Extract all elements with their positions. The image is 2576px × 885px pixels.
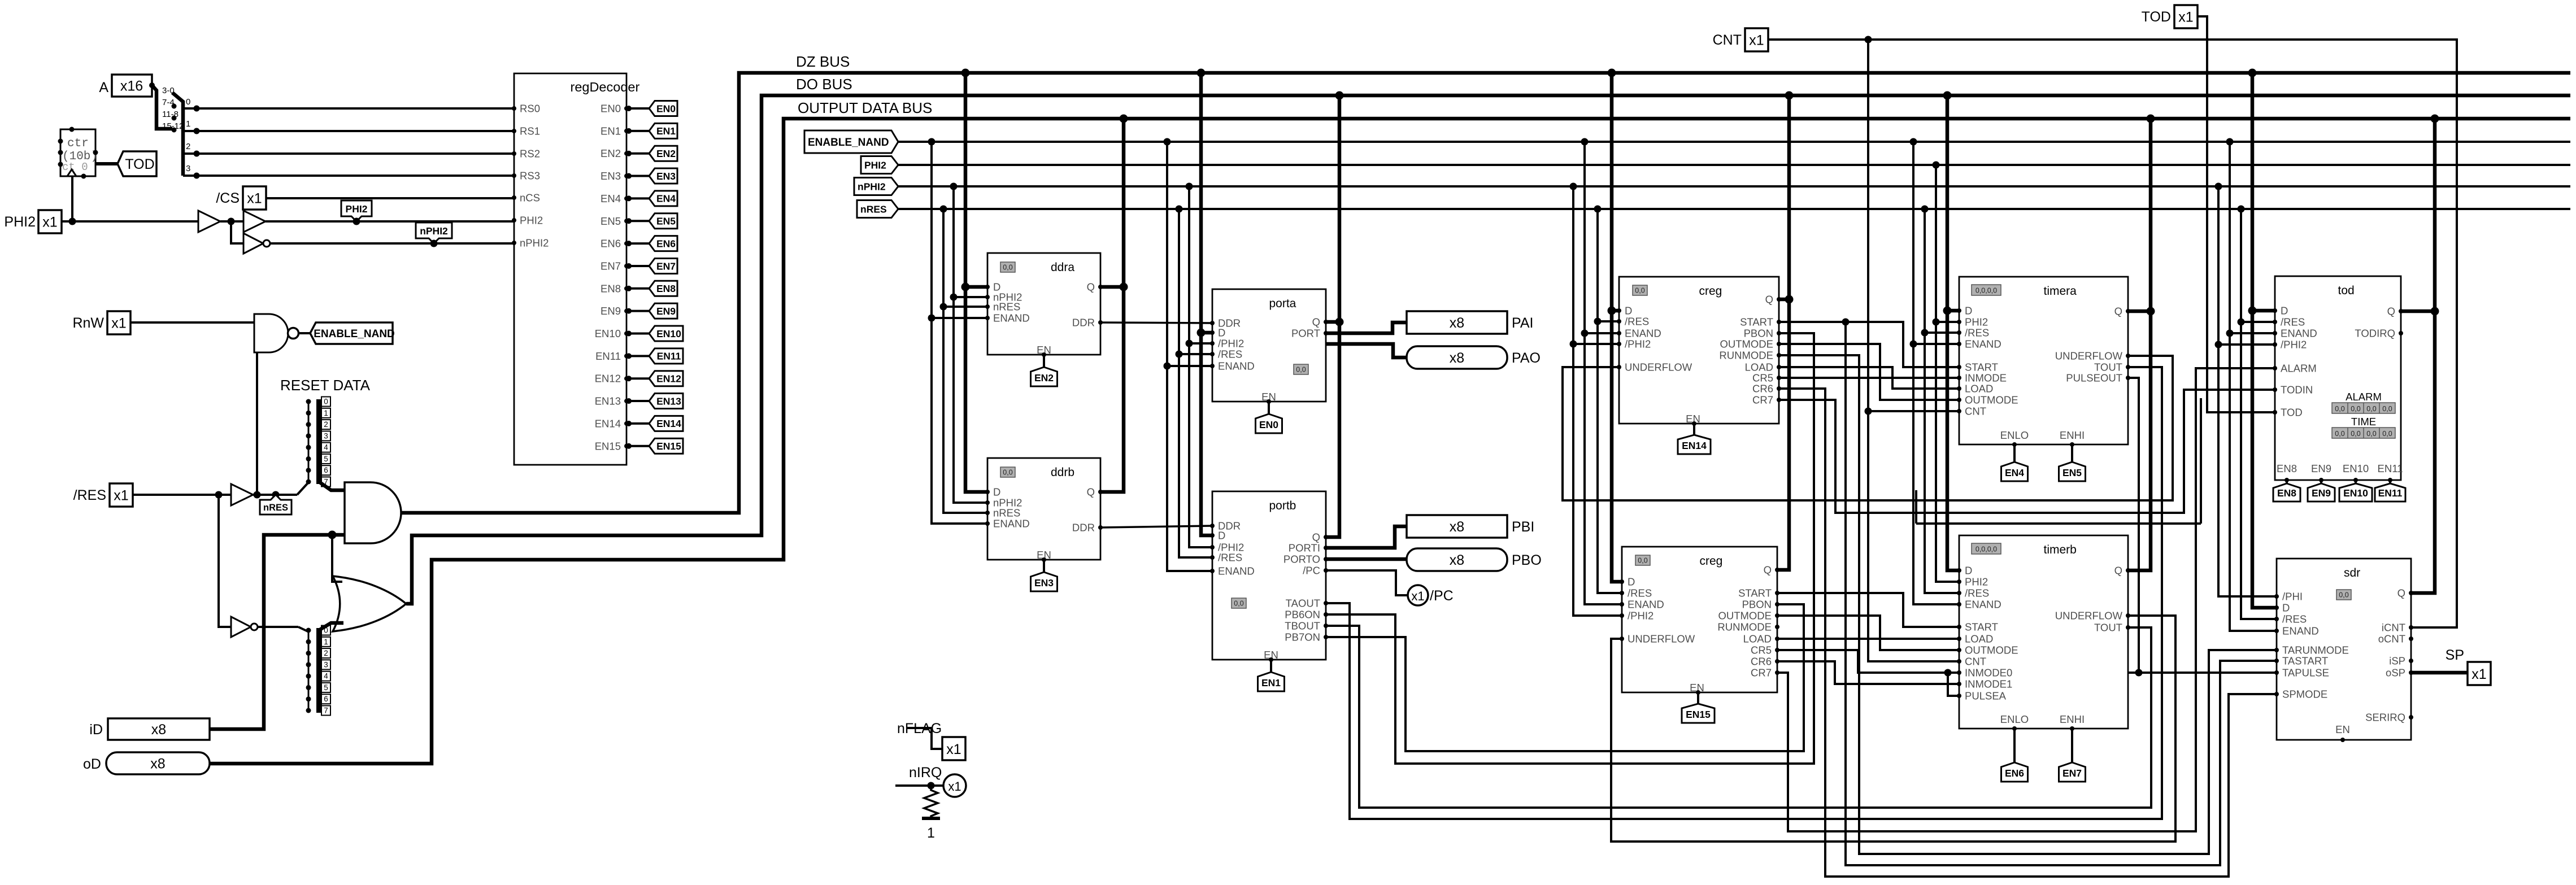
timera xyxy=(1959,277,2128,444)
svg-text:EN4: EN4 xyxy=(656,193,676,204)
svg-text:EN10: EN10 xyxy=(595,328,621,339)
wire ddra/ddrb Q tie to OUTPUT DATA BUS xyxy=(1120,115,1128,123)
junction iD to OR xyxy=(328,531,337,539)
svg-text:CR6: CR6 xyxy=(1751,656,1772,668)
wire timera.PULSEOUT to sdr.TAPULSE xyxy=(2128,378,2139,673)
svg-text:x8: x8 xyxy=(1450,552,1464,568)
node EN14 flag xyxy=(1692,421,1696,426)
junction nIRQ pullup xyxy=(928,782,935,790)
svg-text:LOAD: LOAD xyxy=(1743,633,1772,645)
svg-text:EN8: EN8 xyxy=(601,282,621,294)
svg-text:PHI2: PHI2 xyxy=(864,159,886,171)
svg-text:PBO: PBO xyxy=(1512,552,1542,568)
node EN3 flag xyxy=(649,168,677,184)
svg-text:oSP: oSP xyxy=(2386,667,2405,679)
wire iD bus xyxy=(210,535,345,729)
wire cregA.PBON to portb.PB6ON xyxy=(1326,333,1814,764)
or gate U8 xyxy=(333,576,406,631)
svg-text:Q: Q xyxy=(1764,564,1772,576)
node EN6 flag xyxy=(2012,726,2017,731)
wire cregA.START to timera.START xyxy=(1779,322,1959,367)
svg-text:/RES: /RES xyxy=(2281,316,2305,328)
svg-text:EN: EN xyxy=(2335,723,2350,735)
svg-text:D: D xyxy=(1628,576,1635,588)
svg-text:PBON: PBON xyxy=(1742,599,1772,611)
svg-text:EN1: EN1 xyxy=(656,125,676,137)
svg-text:EN6: EN6 xyxy=(656,238,676,249)
wire EN7 stub xyxy=(626,265,649,267)
svg-text:ENABLE_NAND: ENABLE_NAND xyxy=(314,328,395,340)
wire EN3 stub xyxy=(626,175,649,177)
inverter U6 /RES xyxy=(231,617,251,637)
wire EN1 stub xyxy=(626,130,649,132)
node EN1 flag xyxy=(1269,657,1273,662)
node EN2 flag xyxy=(1042,352,1046,357)
wire porta/portb Q tie to DO BUS xyxy=(1335,91,1344,100)
svg-text:/RES: /RES xyxy=(2282,613,2307,625)
svg-text:/RES: /RES xyxy=(1628,587,1652,599)
wire oSP to SP xyxy=(2411,671,2468,675)
svg-text:sdr: sdr xyxy=(2344,566,2360,579)
wire EN0 stub xyxy=(626,107,649,110)
svg-text:Q: Q xyxy=(2397,587,2405,599)
svg-text:Q: Q xyxy=(1087,281,1095,293)
svg-text:TODIRQ: TODIRQ xyxy=(2355,328,2395,339)
junction PHI2/ctr xyxy=(69,218,76,225)
resistor R1 pullup xyxy=(924,786,938,818)
svg-text:nPHI2: nPHI2 xyxy=(520,237,549,249)
svg-text:RESET DATA: RESET DATA xyxy=(280,377,371,394)
wire ENAND drop porta/portb xyxy=(1164,138,1171,146)
svg-text:OUTMODE: OUTMODE xyxy=(1718,610,1772,622)
node PHI2 flag right xyxy=(861,156,898,174)
wire nRES line xyxy=(898,208,2570,210)
svg-text:creg: creg xyxy=(1700,555,1723,568)
port CNT xyxy=(1745,28,1768,51)
svg-text:UNDERFLOW: UNDERFLOW xyxy=(1628,633,1695,645)
svg-text:0,0: 0,0 xyxy=(2335,430,2344,438)
svg-text:0,0,0,0: 0,0,0,0 xyxy=(1975,546,1997,553)
wire oD bus to OUTPUT DATA BUS xyxy=(210,119,2570,764)
svg-text:porta: porta xyxy=(1269,297,1296,310)
svg-text:UNDERFLOW: UNDERFLOW xyxy=(1625,361,1692,373)
svg-text:EN5: EN5 xyxy=(601,215,621,227)
svg-text:EN12: EN12 xyxy=(656,373,681,385)
wire EN5 stub xyxy=(626,220,649,222)
svg-text:x1: x1 xyxy=(1411,589,1424,603)
svg-text:1: 1 xyxy=(324,409,328,417)
svg-text:ENAND: ENAND xyxy=(1965,338,2001,350)
svg-text:ENLO: ENLO xyxy=(2000,713,2029,725)
svg-text:PORTO: PORTO xyxy=(1283,553,1320,565)
svg-text:PHI2: PHI2 xyxy=(1965,576,1988,588)
counter ctr (10b) xyxy=(60,129,95,176)
node EN4 flag xyxy=(649,191,677,206)
svg-text:OUTMODE: OUTMODE xyxy=(1965,644,2018,656)
svg-text:2: 2 xyxy=(186,142,190,151)
svg-text:UNDERFLOW: UNDERFLOW xyxy=(2055,350,2123,362)
wire splitter1 to AND xyxy=(320,482,345,490)
junction /RES fanout xyxy=(215,491,223,499)
svg-text:x8: x8 xyxy=(1450,350,1464,366)
svg-text:ENHI: ENHI xyxy=(2060,713,2085,725)
port SP xyxy=(2468,662,2491,685)
svg-text:nRES: nRES xyxy=(860,203,887,215)
svg-text:0: 0 xyxy=(324,398,328,406)
wire iD branch to OR input xyxy=(332,535,342,582)
ground / power 1 xyxy=(922,817,940,820)
svg-text:1: 1 xyxy=(927,825,935,841)
junction START to TASTART xyxy=(1842,319,1850,326)
wire nPHI2 branch down xyxy=(231,221,243,243)
svg-text:0,0: 0,0 xyxy=(1638,557,1647,565)
svg-text:/RES: /RES xyxy=(1218,348,1242,360)
svg-text:CR5: CR5 xyxy=(1752,372,1773,384)
svg-text:LOAD: LOAD xyxy=(1965,633,1993,645)
wire EN9 stub xyxy=(626,310,649,312)
wire cregA.CR6 to sdr.SPMODE xyxy=(1779,389,2277,877)
svg-text:START: START xyxy=(1965,361,1998,373)
svg-text:CR5: CR5 xyxy=(1751,644,1772,656)
svg-text:D: D xyxy=(1218,530,1225,542)
svg-text:7: 7 xyxy=(324,707,328,715)
svg-text:0,0: 0,0 xyxy=(2382,405,2392,413)
wire ctr clock feed xyxy=(71,176,73,221)
wire PHI2 drop timera/timerb xyxy=(1933,162,1940,169)
svg-text:timera: timera xyxy=(2044,285,2077,298)
svg-text:START: START xyxy=(1740,316,1773,328)
node EN11 flag xyxy=(2388,478,2392,482)
svg-text:CR7: CR7 xyxy=(1751,667,1772,679)
svg-text:/RES: /RES xyxy=(73,487,106,503)
svg-text:/PC: /PC xyxy=(1303,565,1320,577)
svg-text:ENAND: ENAND xyxy=(1965,599,2001,611)
svg-text:3: 3 xyxy=(324,660,328,669)
inverter U3 nPHI2 xyxy=(243,233,263,254)
node PHI2 label flag xyxy=(341,200,372,221)
svg-text:TARUNMODE: TARUNMODE xyxy=(2282,644,2349,656)
wire TAPULSE line xyxy=(2128,672,2277,674)
svg-text:nIRQ: nIRQ xyxy=(909,765,942,781)
node EN1 flag xyxy=(649,123,677,138)
svg-text:0,0: 0,0 xyxy=(2366,430,2376,438)
wire cregA.RUNMODE to sdr.TARUNMODE xyxy=(1779,355,2277,854)
wire DZ drop creg D xyxy=(1608,69,1616,77)
svg-text:x1: x1 xyxy=(114,488,128,504)
svg-text:0,0: 0,0 xyxy=(2335,405,2344,413)
node EN10 flag xyxy=(2353,478,2358,482)
svg-text:RnW: RnW xyxy=(72,315,104,331)
creg B control register xyxy=(1622,547,1777,692)
svg-text:EN9: EN9 xyxy=(2312,487,2331,499)
svg-text:x8: x8 xyxy=(150,756,165,772)
svg-text:D: D xyxy=(1965,565,1972,577)
svg-text:iD: iD xyxy=(89,722,103,738)
wire TOD to tod.TOD xyxy=(2198,16,2275,412)
wire nRES drop porta/portb xyxy=(1176,206,1183,213)
wire buffer1 out xyxy=(220,220,243,223)
node EN5 flag xyxy=(2070,442,2074,447)
svg-text:START: START xyxy=(1738,587,1772,599)
wire CNT line xyxy=(1768,40,2457,627)
svg-text:PBI: PBI xyxy=(1512,519,1534,535)
svg-text:nRES: nRES xyxy=(263,503,288,513)
node EN2 flag xyxy=(649,146,677,161)
node EN8 flag xyxy=(649,281,677,296)
wire cregB.CR5 to timerb.INMODE0 xyxy=(1777,650,1959,673)
wire DZ drop tod/sdr D xyxy=(2248,69,2257,77)
svg-text:DZ BUS: DZ BUS xyxy=(796,53,850,70)
svg-text:EN1: EN1 xyxy=(601,125,621,137)
wire nRES drop ddra/ddrb xyxy=(940,206,947,213)
wire cregA.OUTMODE to timera.OUTMODE xyxy=(1779,344,1959,400)
node EN4 flag xyxy=(2012,442,2017,447)
svg-text:/PHI2: /PHI2 xyxy=(1625,338,1651,350)
svg-text:PORTI: PORTI xyxy=(1289,542,1320,554)
svg-text:3: 3 xyxy=(186,164,190,173)
svg-text:2: 2 xyxy=(324,649,328,657)
sdr serial data register xyxy=(2277,559,2411,740)
svg-text:D: D xyxy=(1218,327,1225,339)
svg-text:EN0: EN0 xyxy=(601,103,621,115)
junction nRES to NAND xyxy=(254,491,261,499)
svg-text:D: D xyxy=(2281,305,2288,317)
node ENABLE_NAND flag right xyxy=(804,130,898,153)
svg-text:0,0: 0,0 xyxy=(2382,430,2392,438)
wire A low nibble trunk xyxy=(172,93,183,176)
svg-text:ENAND: ENAND xyxy=(1218,565,1255,577)
svg-text:TOD: TOD xyxy=(125,156,154,172)
junction nRES flag xyxy=(272,491,280,499)
svg-text:PHI2: PHI2 xyxy=(4,214,36,230)
wire NAND out xyxy=(299,332,310,334)
svg-text:PULSEOUT: PULSEOUT xyxy=(2066,372,2122,384)
node EN7 flag xyxy=(649,258,677,273)
svg-text:nPHI2: nPHI2 xyxy=(858,181,886,192)
wire NAND input2 from nRES xyxy=(256,352,258,495)
node EN13 flag xyxy=(649,394,683,409)
svg-text:ctr: ctr xyxy=(67,137,89,150)
node EN15 flag xyxy=(649,438,683,454)
svg-text:EN8: EN8 xyxy=(656,283,676,294)
wire timera.TOUT to portb.TAOUT xyxy=(1326,367,2162,819)
svg-text:A: A xyxy=(99,80,108,95)
svg-text:SERIRQ: SERIRQ xyxy=(2365,712,2405,723)
svg-text:EN9: EN9 xyxy=(2311,463,2331,474)
wire ENAND drop creg xyxy=(1581,138,1589,146)
svg-text:EN4: EN4 xyxy=(601,193,621,204)
wire nPHI2 to regDecoder xyxy=(270,242,514,245)
svg-text:5: 5 xyxy=(324,683,328,692)
svg-text:TOD: TOD xyxy=(2281,407,2303,418)
node ENABLE_NAND flag xyxy=(310,322,393,344)
svg-text:DDR: DDR xyxy=(1072,522,1095,534)
svg-text:EN2: EN2 xyxy=(1034,372,1054,383)
svg-text:Q: Q xyxy=(1087,486,1095,498)
svg-text:EN9: EN9 xyxy=(656,306,676,317)
wire nCS xyxy=(266,197,514,199)
wire aux link xyxy=(1916,398,2201,524)
wire porta to PAO xyxy=(1326,344,1407,358)
svg-text:EN11: EN11 xyxy=(2378,487,2403,499)
svg-text:0: 0 xyxy=(186,97,190,107)
svg-text:EN11: EN11 xyxy=(595,350,621,362)
svg-text:ENAND: ENAND xyxy=(1218,360,1255,372)
splitter S2 reset-data xyxy=(316,628,322,713)
svg-text:creg: creg xyxy=(1699,285,1722,298)
node EN9 flag xyxy=(649,303,677,319)
svg-text:EN15: EN15 xyxy=(1686,709,1711,720)
wire nPHI2 drop tod/sdr xyxy=(2215,183,2222,190)
node nRES label flag xyxy=(260,495,291,515)
wire EN12 stub xyxy=(626,377,649,380)
wire DO drop timera/timerb D xyxy=(1943,91,1952,100)
svg-text:RS1: RS1 xyxy=(520,125,540,137)
svg-text:x1: x1 xyxy=(2471,666,2486,682)
svg-text:x1: x1 xyxy=(111,316,126,332)
svg-text:TIME: TIME xyxy=(2351,416,2376,428)
svg-text:0,0: 0,0 xyxy=(1003,264,1012,272)
svg-text:EN7: EN7 xyxy=(656,260,676,272)
svg-text:0,0: 0,0 xyxy=(1003,469,1012,477)
svg-text:TODIN: TODIN xyxy=(2281,384,2313,396)
svg-text:PORT: PORT xyxy=(1291,328,1320,339)
svg-text:ENLO: ENLO xyxy=(2000,429,2029,441)
svg-text:ddrb: ddrb xyxy=(1051,466,1074,479)
svg-text:0,0: 0,0 xyxy=(1635,287,1644,295)
svg-text:PB6ON: PB6ON xyxy=(1285,609,1320,621)
svg-text:CNT: CNT xyxy=(1713,32,1742,48)
svg-text:6: 6 xyxy=(324,466,328,474)
wire ENAND drop tod/sdr xyxy=(2226,138,2234,146)
svg-text:RS0: RS0 xyxy=(520,103,540,115)
svg-text:TOD: TOD xyxy=(2142,9,2171,25)
wire nRES drop timera/timerb xyxy=(1921,206,1929,213)
timerb xyxy=(1959,535,2128,729)
svg-text:EN14: EN14 xyxy=(656,418,681,429)
svg-text:4: 4 xyxy=(324,443,328,452)
port iD xyxy=(108,718,210,740)
svg-text:ENAND: ENAND xyxy=(1628,599,1664,611)
port oD xyxy=(106,752,210,774)
wire timera/timerb Q tie to OUTPUT DATA BUS xyxy=(2147,115,2155,123)
svg-text:RUNMODE: RUNMODE xyxy=(1719,350,1773,361)
svg-text:EN15: EN15 xyxy=(595,440,621,452)
wire porta.PORT to PAI xyxy=(1326,322,1407,333)
ddrb register xyxy=(987,458,1100,560)
port TOD xyxy=(2174,5,2198,28)
svg-text:EN3: EN3 xyxy=(601,170,621,182)
svg-text:1: 1 xyxy=(324,638,328,646)
port PAI xyxy=(1407,311,1507,334)
svg-text:oD: oD xyxy=(83,756,101,772)
svg-text:0,0: 0,0 xyxy=(1234,600,1243,608)
wire cregA.CR7 to tod.TODIN xyxy=(1779,390,2275,513)
svg-text:D: D xyxy=(993,486,1000,498)
wire portb.PORTI to PBI xyxy=(1326,526,1407,548)
svg-text:portb: portb xyxy=(1269,499,1296,512)
wire EN11 stub xyxy=(626,355,649,357)
svg-text:DO BUS: DO BUS xyxy=(796,76,852,93)
node nPHI2 label flag xyxy=(416,223,452,243)
wire cregA.START branch to sdr.TASTART xyxy=(1846,322,2277,865)
svg-text:2: 2 xyxy=(324,420,328,429)
svg-text:Q: Q xyxy=(2114,306,2122,317)
svg-text:EN7: EN7 xyxy=(601,260,621,272)
svg-text:START: START xyxy=(1965,621,1998,633)
wire creg Q tie to DO BUS xyxy=(1785,91,1794,100)
wire EN6 stub xyxy=(626,242,649,245)
wire cregA.UNDERFLOW to timera.UNDERFLOW xyxy=(1563,356,2173,500)
svg-text:RS2: RS2 xyxy=(520,148,540,160)
port PAO xyxy=(1407,346,1507,369)
svg-text:EN10: EN10 xyxy=(2343,463,2369,474)
port PBO xyxy=(1407,548,1507,571)
wire RnW to NAND xyxy=(130,321,254,324)
svg-text:ENAND: ENAND xyxy=(1625,328,1661,339)
node TOD flag xyxy=(118,151,156,176)
svg-text:EN2: EN2 xyxy=(656,148,676,159)
svg-text:x8: x8 xyxy=(151,722,166,738)
svg-text:5: 5 xyxy=(324,455,328,463)
wire cregB.LOAD to timerb.LOAD xyxy=(1777,638,1959,640)
wire nRES drop creg xyxy=(1594,206,1602,213)
svg-text:EN6: EN6 xyxy=(601,238,621,250)
svg-text:PULSEA: PULSEA xyxy=(1965,690,2007,702)
wire OR out to DO BUS xyxy=(406,95,2570,604)
node EN0 flag xyxy=(649,101,677,116)
svg-text:INMODE0: INMODE0 xyxy=(1965,667,2012,679)
wire A x16 trunk xyxy=(152,85,172,129)
wire ENAND drop ddra/ddrb xyxy=(928,138,935,146)
svg-text:ALARM: ALARM xyxy=(2346,391,2382,403)
wire tod/sdr Q tie to OUTPUT DATA BUS xyxy=(2431,115,2439,123)
wire cregA.LOAD to timera.LOAD xyxy=(1779,367,1959,389)
wire PHI2 to regDecoder xyxy=(266,220,514,223)
svg-text:PB7ON: PB7ON xyxy=(1285,631,1320,643)
svg-text:TAPULSE: TAPULSE xyxy=(2282,667,2329,679)
svg-text:ENAND: ENAND xyxy=(2281,328,2317,339)
wire DZ drop porta/portb D xyxy=(1197,69,1206,77)
svg-text:CNT: CNT xyxy=(1965,656,1986,668)
svg-text:Q: Q xyxy=(1312,531,1320,543)
junction PULSEOUT TAPULSE xyxy=(2135,669,2143,677)
svg-text:ALARM: ALARM xyxy=(2281,363,2317,374)
svg-text:EN0: EN0 xyxy=(1259,419,1278,430)
svg-text:x1: x1 xyxy=(42,215,57,230)
svg-text:x1: x1 xyxy=(247,191,262,207)
junction PULSEA INMODE0 xyxy=(1944,669,1952,677)
svg-text:TASTART: TASTART xyxy=(2282,655,2328,667)
svg-text:regDecoder: regDecoder xyxy=(571,80,640,94)
svg-text:/PHI: /PHI xyxy=(2282,591,2303,603)
svg-text:D: D xyxy=(2282,602,2290,614)
svg-text:EN8: EN8 xyxy=(2277,463,2297,474)
svg-text:nPHI2: nPHI2 xyxy=(420,225,448,237)
svg-text:ENHI: ENHI xyxy=(2060,429,2085,441)
svg-text:x16: x16 xyxy=(120,79,143,94)
node EN14 flag xyxy=(649,416,683,431)
svg-text:UNDERFLOW: UNDERFLOW xyxy=(2055,610,2123,622)
port PBI xyxy=(1407,515,1507,538)
splitter S1 reset-data xyxy=(316,399,322,484)
svg-text:PAI: PAI xyxy=(1512,315,1533,331)
svg-text:6: 6 xyxy=(324,695,328,703)
svg-text:EN4: EN4 xyxy=(2005,467,2024,478)
svg-text:4: 4 xyxy=(324,672,328,681)
svg-text:Q: Q xyxy=(2387,306,2395,317)
wire PHI2 line xyxy=(898,164,2570,166)
